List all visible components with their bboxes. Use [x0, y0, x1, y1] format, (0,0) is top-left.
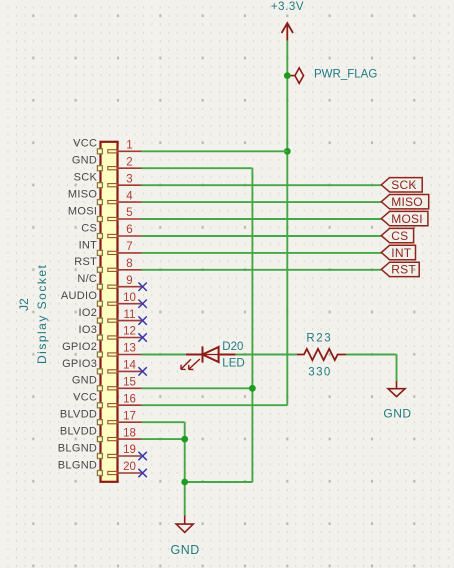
- svg-text:IO3: IO3: [79, 324, 98, 336]
- pin 2 (GND): [72, 155, 142, 171]
- pin 8 (RST): [74, 256, 141, 272]
- no-connect X pin 19: [138, 452, 146, 460]
- svg-text:RST: RST: [391, 263, 416, 277]
- svg-text:BLGND: BLGND: [58, 459, 97, 471]
- pin 6 (CS): [81, 222, 141, 238]
- wire R23 to corner: [346, 354, 396, 356]
- wire pin3 to label SCK: [142, 184, 382, 186]
- svg-text:10: 10: [123, 292, 136, 304]
- svg-text:D20: D20: [222, 341, 243, 353]
- svg-text:Display Socket: Display Socket: [35, 264, 49, 364]
- ground GND (bottom): [176, 516, 193, 533]
- pin 16 (VCC): [73, 392, 141, 408]
- pin 1 (VCC): [73, 138, 141, 154]
- connector J2 body: [101, 142, 118, 482]
- no-connect X pin 10: [138, 300, 146, 308]
- svg-text:PWR_FLAG: PWR_FLAG: [314, 69, 377, 81]
- ground GND (right of R23): [388, 381, 405, 397]
- pin 18 (BLVDD): [60, 426, 142, 442]
- wire GND net bottom horizontal: [185, 481, 253, 483]
- no-connect X pin 12: [138, 333, 146, 341]
- wire GND net vertical: [251, 168, 253, 482]
- svg-text:MOSI: MOSI: [68, 205, 97, 217]
- svg-text:11: 11: [124, 309, 136, 321]
- svg-text:14: 14: [123, 360, 136, 372]
- pin 3 (SCK): [74, 172, 142, 188]
- pin 5 (MOSI): [68, 205, 142, 221]
- svg-text:+3.3V: +3.3V: [271, 1, 304, 13]
- hierarchical label MISO: [381, 195, 428, 210]
- svg-text:19: 19: [123, 444, 136, 456]
- pin 20 (BLGND): [58, 459, 142, 475]
- svg-text:CS: CS: [81, 222, 97, 234]
- no-connect X pin 9: [138, 283, 146, 291]
- power flag PWR_FLAG: [287, 68, 303, 83]
- junction pin1 / +3.3V: [284, 148, 291, 155]
- pin 19 (BLGND): [58, 442, 142, 458]
- pin 13 (GPIO2): [62, 341, 141, 357]
- hierarchical label INT: [381, 245, 415, 259]
- svg-text:9: 9: [126, 275, 132, 287]
- svg-text:R23: R23: [306, 333, 332, 345]
- wire pin4 to label MISO: [142, 201, 382, 203]
- svg-text:2: 2: [126, 156, 132, 168]
- svg-text:GPIO3: GPIO3: [62, 358, 97, 370]
- svg-text:20: 20: [123, 461, 136, 473]
- pin 7 (INT): [79, 239, 142, 255]
- wire pin18 BLVDD: [142, 438, 185, 440]
- wire pin15 GND: [142, 387, 253, 389]
- svg-text:3: 3: [126, 173, 132, 185]
- svg-text:SCK: SCK: [74, 172, 98, 184]
- wire LED anode to R23: [236, 354, 297, 356]
- svg-text:LED: LED: [222, 357, 244, 369]
- svg-text:330: 330: [308, 367, 331, 379]
- hierarchical label RST: [381, 262, 419, 277]
- svg-text:8: 8: [126, 258, 132, 270]
- pin 4 (MISO): [68, 189, 142, 205]
- svg-text:VCC: VCC: [73, 392, 97, 404]
- pin 9 (N/C): [77, 273, 141, 289]
- junction at PWR_FLAG: [284, 72, 291, 79]
- wire pin5 to label MOSI: [142, 218, 382, 220]
- power symbol +3.3V: [282, 23, 293, 40]
- junction pin18: [181, 436, 188, 443]
- svg-text:GND: GND: [383, 407, 411, 421]
- svg-text:CS: CS: [391, 229, 408, 243]
- wire BLVDD/GND vertical: [184, 422, 186, 515]
- svg-text:GPIO2: GPIO2: [62, 341, 97, 353]
- svg-text:17: 17: [123, 410, 136, 422]
- svg-text:BLVDD: BLVDD: [60, 409, 97, 421]
- no-connect X pin 11: [138, 316, 146, 324]
- svg-text:MISO: MISO: [391, 195, 422, 209]
- wire pin2 GND horizontal: [142, 167, 253, 169]
- svg-text:INT: INT: [79, 239, 98, 251]
- svg-text:IO2: IO2: [79, 307, 98, 319]
- svg-text:15: 15: [123, 377, 136, 389]
- wire pin13 GPIO2 to LED: [142, 354, 186, 356]
- svg-text:GND: GND: [171, 543, 200, 557]
- hierarchical label MOSI: [381, 211, 428, 226]
- no-connect X pin 20: [138, 469, 146, 477]
- svg-text:BLGND: BLGND: [58, 442, 97, 454]
- svg-text:5: 5: [126, 207, 132, 219]
- junction pin15 GND: [249, 385, 256, 392]
- svg-text:GND: GND: [72, 375, 97, 387]
- svg-text:6: 6: [126, 224, 132, 236]
- svg-text:13: 13: [123, 343, 136, 355]
- svg-text:J2: J2: [17, 298, 31, 311]
- junction bottom GND corner: [181, 479, 188, 486]
- LED D20: [186, 346, 236, 362]
- svg-text:4: 4: [126, 190, 133, 202]
- svg-text:12: 12: [123, 326, 136, 338]
- pin 17 (BLVDD): [60, 409, 142, 425]
- svg-text:1: 1: [126, 140, 132, 152]
- svg-text:7: 7: [126, 241, 132, 253]
- svg-text:RST: RST: [74, 256, 97, 268]
- wire pin16 VCC to +3.3V: [142, 404, 288, 406]
- svg-text:SCK: SCK: [391, 178, 416, 192]
- pin 12 (IO3): [79, 324, 142, 340]
- svg-text:AUDIO: AUDIO: [61, 290, 97, 302]
- svg-text:MOSI: MOSI: [391, 212, 422, 226]
- svg-text:VCC: VCC: [73, 138, 97, 150]
- pin 10 (AUDIO): [61, 290, 142, 306]
- svg-text:16: 16: [123, 393, 136, 405]
- wire corner down to GND: [396, 355, 398, 382]
- svg-text:GND: GND: [72, 155, 97, 167]
- hierarchical label CS: [381, 228, 413, 243]
- wire pin6 to label CS: [142, 235, 382, 237]
- hierarchical label SCK: [381, 178, 422, 193]
- resistor R23: [297, 349, 346, 360]
- wire pin8 to label RST: [142, 269, 382, 271]
- svg-text:18: 18: [123, 427, 136, 439]
- wire pin1 VCC to +3.3V: [142, 150, 288, 152]
- wire +3.3V vertical net: [286, 41, 288, 406]
- svg-text:INT: INT: [391, 246, 411, 260]
- no-connect X pin 14: [138, 367, 146, 375]
- wire pin7 to label INT: [142, 252, 382, 254]
- svg-text:MISO: MISO: [68, 189, 97, 201]
- pin 11 (IO2): [79, 307, 142, 323]
- svg-text:BLVDD: BLVDD: [60, 426, 97, 438]
- LED emission arrows: [181, 359, 200, 370]
- wire pin17 BLVDD: [142, 421, 185, 423]
- pin 15 (GND): [72, 375, 142, 391]
- svg-text:N/C: N/C: [77, 273, 97, 285]
- pin 14 (GPIO3): [62, 358, 141, 374]
